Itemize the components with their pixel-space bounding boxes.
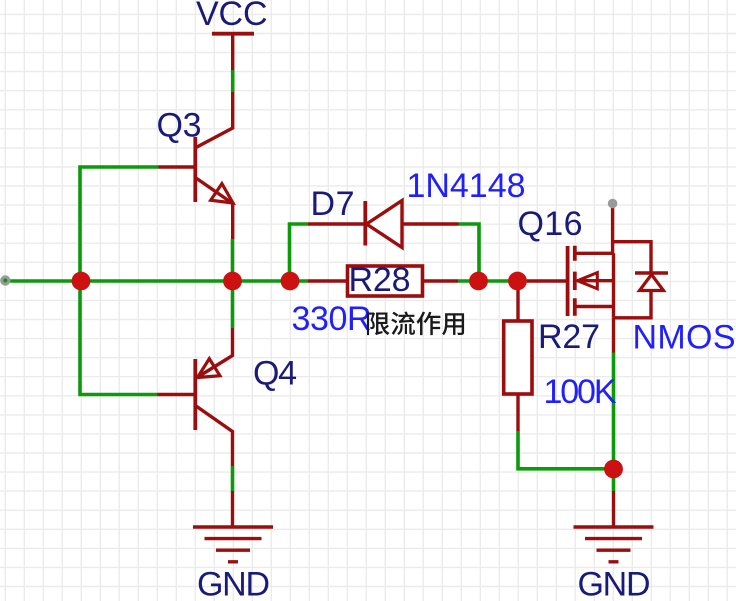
diode D7 [308,185,459,248]
svg-text:Q4: Q4 [253,355,297,393]
wire: bottom node to GND stub [612,469,616,491]
svg-text:NMOS: NMOS [633,319,736,357]
annotation 限流作用 [367,311,464,335]
pin: unconnected drain marker [608,199,618,209]
resistor R28 [308,261,458,299]
wire: input net to R28 (horizontal main net) [8,279,308,283]
resistor R27 [504,281,600,431]
junction node (input branch) [72,272,91,291]
svg-text:R27: R27 [538,318,600,356]
junction node (R27 top / Q16 gate) [508,272,527,291]
svg-text:100K: 100K [544,373,617,411]
svg-text:330R: 330R [292,300,372,338]
svg-text:VCC: VCC [196,0,268,33]
svg-text:Q3: Q3 [157,107,202,145]
wire: Q3 emitter to main net [231,239,235,281]
power flag VCC [196,0,268,70]
svg-text:R28: R28 [349,261,411,299]
ground symbol (right, under Q16 source) [574,491,654,601]
input port dot [0,275,10,285]
wire: D7 right corner [459,224,480,281]
wire: R28 right to Q16 gate [458,279,527,283]
wire: Q16 source down to bottom node [612,352,616,469]
transistor Q3 (NPN) [157,92,234,239]
junction node (source / R27 bottom / GND) [604,460,623,479]
wire: R27 bottom to bottom node [518,431,614,469]
svg-text:Q16: Q16 [518,205,583,243]
ground symbol (left, under Q4) [193,491,273,601]
junction node (D7 right / R28 right) [469,272,488,291]
wire: main net to Q4 emitter [231,281,235,328]
transistor Q4 (PNP) [158,328,298,466]
svg-text:GND: GND [197,566,270,601]
svg-text:D7: D7 [311,185,355,223]
transistor Q16 (NMOS with body diode) [518,199,669,353]
junction node (D7 left / R28 left) [281,272,300,291]
wire: VCC stub to Q3 collector [231,70,235,92]
wire: Q4 collector to GND [231,466,235,491]
body diode of Q16 [613,242,651,273]
svg-text:GND: GND [578,566,651,601]
wire: D7 left corner [290,224,309,281]
junction node (Q3/Q4 emitters) [223,272,242,291]
svg-text:1N4148: 1N4148 [407,167,526,205]
wire: left vertical branch bus [80,167,159,395]
